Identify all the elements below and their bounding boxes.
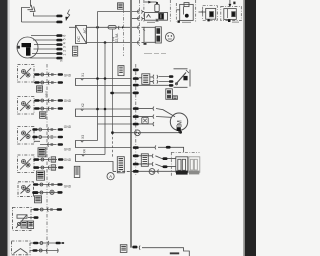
switch wires from bus xyxy=(139,77,169,85)
valve Y3 body xyxy=(224,2,237,20)
wire loop left of connector xyxy=(22,8,31,23)
dash-dot boundary inner xyxy=(123,10,125,57)
GND label 5 xyxy=(64,158,72,162)
pin blob row 2 xyxy=(56,21,62,24)
G3 wire 1 xyxy=(32,128,63,132)
G7 wire 1 xyxy=(30,241,64,245)
G6 label boxes xyxy=(21,221,27,228)
GND label 4 xyxy=(64,148,72,152)
pump ground pin xyxy=(177,127,181,131)
connector label X1 xyxy=(60,58,64,62)
svg-text:1: 1 xyxy=(63,54,67,56)
pump wire C xyxy=(139,122,154,126)
connector arcs pair 1 xyxy=(153,75,158,79)
vertical feed wire a xyxy=(97,12,99,141)
connector on boundary y11.5 xyxy=(138,10,144,14)
MAIN SCHEMATIC xyxy=(12,0,242,256)
G3 wire 3 xyxy=(34,141,63,146)
svg-text:GND: GND xyxy=(64,125,72,129)
wire U1 out bottom xyxy=(87,42,140,44)
dash-dot boundary top xyxy=(139,0,141,46)
junction dot xyxy=(96,26,99,29)
small x-box on wire C xyxy=(142,117,148,123)
svg-text:X4: X4 xyxy=(83,149,87,153)
vertical feed wire b xyxy=(104,43,106,155)
pin blobs of connector M1 wires xyxy=(56,34,62,59)
G3 wire 2 xyxy=(32,135,63,139)
round multi-pin connector M1 xyxy=(17,37,38,58)
GND label 6 xyxy=(64,184,72,188)
relay K2 coil xyxy=(155,2,159,13)
X3 label xyxy=(81,135,85,139)
svg-text:5: 5 xyxy=(63,38,67,40)
label box X2 (hatched) xyxy=(73,46,78,56)
twist arrows on feed wire xyxy=(118,26,124,30)
right page-edge black bar xyxy=(243,0,256,256)
GND label 3 xyxy=(64,125,72,129)
sensor G5 xyxy=(18,182,34,197)
GND label 1 xyxy=(64,74,72,78)
G2 wire 1 xyxy=(34,99,63,103)
svg-text:X1: X1 xyxy=(81,73,85,77)
relay coil wire 2 xyxy=(139,162,176,168)
left page-edge black bar xyxy=(0,0,10,256)
bottom ground wire xyxy=(142,248,189,256)
switch wires to pins xyxy=(159,77,169,82)
sensor G1 (dash-dot box with contacts) xyxy=(18,65,35,83)
bottom caption dash xyxy=(170,252,179,254)
svg-text:GND: GND xyxy=(64,99,72,103)
valve Y2 boundary box xyxy=(203,6,218,21)
connector on boundary y27.3 xyxy=(138,25,145,30)
G7 wire 2 xyxy=(30,249,58,253)
wire y124 to bus xyxy=(98,123,133,125)
relay group label box xyxy=(141,154,148,167)
page background xyxy=(0,0,256,256)
bus pin blobs xyxy=(133,69,139,173)
svg-text:X1: X1 xyxy=(60,58,64,62)
fuel pump motor M2 xyxy=(170,113,187,130)
valve Y2 pin mark xyxy=(208,19,210,21)
MAIN BUS vertical line xyxy=(130,0,132,248)
svg-text:DC: DC xyxy=(76,36,81,42)
stub wire y18.5 xyxy=(132,18,140,20)
X4 ground loop xyxy=(76,155,133,172)
svg-text:X3: X3 xyxy=(81,135,85,139)
switch label box xyxy=(166,89,173,100)
voltage label box 965V xyxy=(117,157,124,173)
junction dot fuse wire / pump feed xyxy=(111,131,114,134)
svg-text:2: 2 xyxy=(63,50,67,52)
relay coil wire 1 xyxy=(139,154,176,160)
DC label xyxy=(76,36,81,42)
sensor G3 xyxy=(18,127,35,145)
AC/DC converter U1 xyxy=(76,26,87,44)
svg-text:AC: AC xyxy=(82,28,87,34)
valve Y1 body xyxy=(180,3,194,21)
svg-text:M: M xyxy=(178,120,184,125)
wire into U1 xyxy=(69,26,76,28)
valve Y2 body xyxy=(202,8,216,19)
sensor G4 xyxy=(18,155,35,173)
G5 wire 2 with shield circle xyxy=(32,190,62,194)
dash-dot boundary mid xyxy=(135,64,137,176)
relay unit A pin band xyxy=(176,171,188,175)
sensor G2 xyxy=(18,97,35,115)
bottom hatched label box xyxy=(120,245,127,253)
dash-dot harness boundary left column xyxy=(46,64,48,254)
svg-text:4: 4 xyxy=(63,42,67,44)
connector arcs pair 2 xyxy=(153,80,158,84)
wire to pin row 1 xyxy=(34,13,57,17)
text oder (rotated) xyxy=(45,90,49,97)
relay unit B pin band xyxy=(189,171,199,175)
fuse F4 value label (rotated) xyxy=(112,33,120,43)
G1 label box xyxy=(37,86,43,92)
svg-text:22,5A: 22,5A xyxy=(115,33,119,43)
vertical fuse output wire xyxy=(112,29,114,158)
svg-text:X2: X2 xyxy=(81,103,85,107)
X2 ground loop xyxy=(76,109,132,117)
G1 wire 2 xyxy=(34,81,63,85)
measuring point circle A xyxy=(107,173,114,180)
ground wire y171 with grommet xyxy=(139,169,176,175)
junction dots X2 top xyxy=(96,108,106,111)
actuator G7 (bottom box with chevron) xyxy=(12,241,31,255)
relay K2 pin marks xyxy=(147,19,158,23)
G4 label box (dark) xyxy=(37,171,45,180)
junction dots X1 top xyxy=(96,77,106,80)
wire to pin row 2 xyxy=(22,21,57,23)
valve Y3 pin marks xyxy=(228,19,239,22)
valve Y3 feed arrow xyxy=(228,0,231,7)
svg-text:GND: GND xyxy=(64,148,72,152)
connector label box X28 xyxy=(142,74,150,85)
valve Y3 boundary box xyxy=(221,6,242,20)
relay K2 boundary dash-dots xyxy=(144,0,170,22)
relay group boundary dash-dot xyxy=(171,152,199,175)
valve Y1 boundary xyxy=(176,0,195,22)
junction dot xyxy=(104,41,107,44)
pump wire A xyxy=(139,107,175,117)
relay K2 contact block xyxy=(159,13,164,19)
G4 wire 1 xyxy=(33,157,63,162)
six wires from connector M1 xyxy=(30,36,57,59)
svg-text:GND: GND xyxy=(64,74,72,78)
G1 wire 1 xyxy=(34,73,63,77)
pin blob row 1 xyxy=(56,15,62,18)
fuse F1 7,5A box xyxy=(118,66,124,76)
svg-text:3: 3 xyxy=(63,46,67,48)
X4 label xyxy=(83,149,87,153)
G5 label box xyxy=(35,196,42,203)
valve Y2 feed stub xyxy=(199,11,206,13)
wire to bus at 93 xyxy=(113,92,133,94)
indicator lamp circle xyxy=(165,33,174,42)
svg-text:oder: oder xyxy=(45,90,49,97)
G6 wire 1 xyxy=(31,208,62,212)
svg-text:GND: GND xyxy=(64,158,72,162)
G2 label box xyxy=(40,112,46,119)
pin numbers 1-6 (rotated) xyxy=(63,35,67,56)
relay unit A xyxy=(176,157,188,173)
instrument box H1 xyxy=(144,27,155,42)
svg-text:A: A xyxy=(109,174,112,179)
firewall grommet circle on pump wire xyxy=(135,130,141,136)
X2 loop label xyxy=(81,103,85,107)
instrument H1 label strip xyxy=(155,27,161,43)
lightning arrow symbol xyxy=(66,10,70,20)
X1 label xyxy=(81,73,85,77)
top feed wire y11.5 xyxy=(98,11,140,13)
fuse F4 xyxy=(108,25,116,29)
relay group feed wire y147 xyxy=(139,145,184,152)
valve Y1 pin marks xyxy=(178,20,192,23)
switch pin blobs xyxy=(169,75,174,86)
GND label 2 xyxy=(64,99,72,103)
AC label xyxy=(82,28,87,34)
G4 wire 2 xyxy=(33,165,63,170)
pump label box small xyxy=(173,96,178,100)
valve Y1 feed stub xyxy=(176,9,179,11)
relay-mount hatched box xyxy=(118,3,124,9)
bottom bus pin blob xyxy=(132,246,137,249)
G2 wire 2 xyxy=(34,107,63,111)
wire U1 out top (30 feed) with fuse xyxy=(87,26,140,28)
faint caption dashes xyxy=(144,53,166,55)
X3 ground loop xyxy=(76,141,132,148)
connector on boundary y42.5 xyxy=(138,41,147,45)
brake switch S1 xyxy=(174,69,191,88)
pin blob on fuse wire xyxy=(110,92,114,95)
connector X5 chevrons xyxy=(27,5,36,14)
G5 wire 1 xyxy=(33,183,63,187)
X1 ground loop xyxy=(76,79,132,86)
svg-text:GND: GND xyxy=(64,184,72,188)
relay unit B (faint) xyxy=(189,157,200,173)
hatched label box DK xyxy=(74,166,80,177)
relay K2 feed wire with arrow xyxy=(145,1,157,4)
connector on boundary y18.5 xyxy=(138,17,144,21)
pump wire B xyxy=(139,115,171,119)
bottom connector arc xyxy=(138,246,141,250)
relay K2 body xyxy=(145,13,168,21)
actuator G6 (larger box) xyxy=(13,208,32,231)
wire: vertical drop from top into connector xyxy=(30,0,32,7)
svg-text:6: 6 xyxy=(63,35,67,37)
pump ground wire xyxy=(114,131,182,134)
G6 wire 2 xyxy=(28,216,39,219)
G3 label box xyxy=(38,148,46,157)
